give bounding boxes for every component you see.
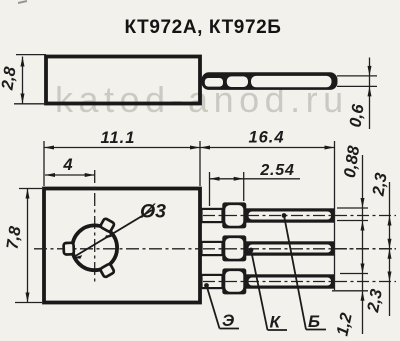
leader collector К <box>249 248 287 330</box>
lead 2 centerline <box>203 248 396 250</box>
dimension 7,8 line with arrows <box>26 189 30 303</box>
lead 1 pin <box>245 208 335 222</box>
hole diameter leader line <box>73 210 152 259</box>
lead 1 (base) stub <box>202 209 223 222</box>
svg-text:4: 4 <box>62 156 72 174</box>
svg-text:КТ972А, КТ972Б: КТ972А, КТ972Б <box>124 17 281 38</box>
dimension 11.1 / 16.4 extension lines <box>44 141 335 290</box>
side view lead <box>202 72 338 90</box>
dimension 0,6 line with outside arrows <box>368 58 372 130</box>
svg-text:Б: Б <box>308 312 320 331</box>
dimension line 0,88 and 1,2 <box>361 155 365 334</box>
lead 3 pin <box>245 274 335 288</box>
tab left <box>64 243 74 255</box>
lead 1 crimp <box>222 202 246 228</box>
svg-text:16.4: 16.4 <box>248 129 284 147</box>
lead 1 centerline <box>203 215 396 217</box>
svg-text:2,3: 2,3 <box>369 172 390 198</box>
lead 2 (collector) stub <box>202 242 223 255</box>
mounting hole circle <box>72 225 117 270</box>
lead 2 pin <box>245 241 335 255</box>
lead 3 (emitter) stub <box>202 275 223 288</box>
dimension 2,8 extension lines <box>14 55 46 104</box>
dimension 2.54 extension lines <box>210 172 244 206</box>
svg-text:0,6: 0,6 <box>347 102 368 128</box>
svg-text:11.1: 11.1 <box>101 129 136 147</box>
svg-text:2,8: 2,8 <box>0 65 20 92</box>
dimension 4 line with arrows <box>45 173 95 177</box>
svg-text:2.54: 2.54 <box>259 162 294 179</box>
lead 2 crimp <box>222 235 246 261</box>
dimension 0,6 extension lines <box>337 76 377 87</box>
svg-text:Ø3: Ø3 <box>140 201 166 223</box>
leader base Б <box>282 213 326 329</box>
horizontal axis centerline <box>34 248 396 250</box>
dimension line 2,3 chain <box>388 182 392 316</box>
dimension 2,8 line with arrows <box>21 57 25 104</box>
dimension 7,8 extension lines <box>15 189 42 303</box>
dimension line 11.1 <box>44 146 335 150</box>
scan speck top-left <box>18 1 27 3</box>
lead 3 crimp <box>222 268 246 294</box>
tab top-right <box>100 218 115 232</box>
side view body outline <box>46 57 200 104</box>
lead 3 centerline <box>203 281 396 283</box>
dimension 2.54 line with arrows <box>210 177 301 181</box>
dimension 0,88 extension lines <box>332 208 368 291</box>
svg-text:К: К <box>270 313 282 332</box>
vertical axis centerline <box>94 170 96 283</box>
tab bottom <box>100 263 115 277</box>
svg-text:Э: Э <box>222 311 234 330</box>
front view body outline <box>44 189 200 303</box>
svg-text:7,8: 7,8 <box>4 224 25 250</box>
leader emitter Э <box>204 283 239 328</box>
